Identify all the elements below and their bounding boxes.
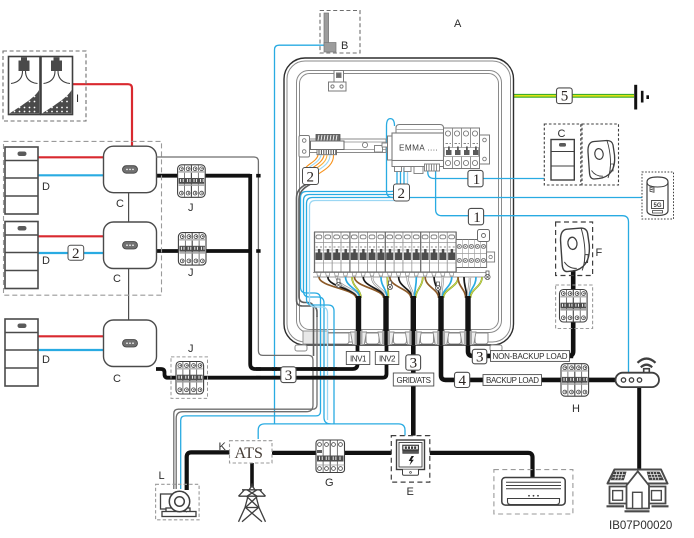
cable gland non-backup (460, 296, 476, 345)
label 4 backup (455, 372, 470, 389)
wire fan GRID/ATS wires (390, 277, 423, 298)
wire signal cyan ATS-E run (258, 424, 405, 440)
svg-text:INV1: INV1 (350, 354, 367, 363)
cable gland backup (433, 296, 449, 345)
svg-text:NON-BACKUP LOAD: NON-BACKUP LOAD (493, 352, 568, 361)
cable stubs and glands (351, 296, 477, 345)
charger C front device (551, 140, 574, 181)
label 3 non-backup (472, 349, 487, 365)
svg-text:D: D (42, 255, 50, 267)
svg-text:1: 1 (473, 210, 481, 226)
LABELS (256, 170, 484, 386)
breaker F (560, 290, 588, 323)
wire battery2 blue (38, 252, 104, 254)
battery D2 (5, 222, 38, 289)
label INV1 (346, 352, 370, 365)
label 1 charger com (468, 170, 483, 188)
top mount component (329, 71, 347, 92)
dongle device (588, 141, 615, 180)
wire fan non-backup load wires (458, 277, 482, 298)
wire signal cyan emma to run (304, 168, 401, 424)
wire battery3 red (38, 335, 104, 337)
wire signal emma com grey to generator (174, 316, 317, 489)
wire grid cable to E meter (411, 300, 416, 440)
svg-text:IB07P00020: IB07P00020 (609, 520, 672, 532)
terminal block on rail (311, 135, 345, 155)
svg-text:2: 2 (307, 170, 315, 186)
svg-text:2: 2 (72, 246, 80, 262)
label 2 terminal com (303, 168, 319, 186)
svg-text:D: D (42, 181, 50, 193)
label 3 inverter bus (281, 367, 296, 384)
wire fan backup load wires (425, 277, 458, 298)
LEFT-COLUMN (3, 51, 208, 398)
CPE 5G cylinder (647, 177, 668, 216)
BOTTOM-ROW (156, 436, 573, 522)
wire AC inverter1 to J1 to bus (156, 174, 250, 178)
svg-text:H: H (572, 403, 580, 415)
svg-text:B: B (341, 40, 348, 52)
wire ATS to G to E (272, 451, 397, 455)
F charger device (561, 228, 590, 272)
router body (616, 373, 660, 387)
wire generator to ATS (187, 452, 230, 490)
house (607, 470, 669, 512)
svg-text:3: 3 (476, 349, 484, 365)
svg-text:INV2: INV2 (379, 354, 396, 363)
label 5 (557, 88, 573, 105)
wire antenna signal (275, 45, 326, 424)
svg-text:L: L (159, 470, 165, 482)
WIRES-LAYER (38, 84, 639, 490)
wire signal emma to label1a to chargerC (428, 168, 545, 179)
label GRID/ATS (393, 373, 434, 386)
antenna B mast (324, 13, 329, 46)
generator L icon (161, 491, 197, 516)
inverter C1 (104, 146, 157, 193)
breaker J3 (176, 362, 204, 395)
grey com wires inside from terminal 2 label (297, 185, 318, 357)
svg-text:A: A (454, 18, 462, 30)
wire router to house (637, 387, 641, 469)
DIN rail (299, 136, 388, 158)
svg-text:F: F (596, 247, 603, 259)
svg-text:J: J (188, 267, 194, 279)
wire crossing patches (thick bus over thin signal wires) (256, 174, 337, 380)
RIGHT-SIDE (320, 11, 674, 533)
svg-text:C: C (116, 198, 124, 210)
tower icon (239, 484, 266, 522)
wire signal inverter1 com grey (156, 157, 313, 489)
label NON-BACKUP LOAD (491, 351, 570, 362)
wire battery3 blue (38, 349, 104, 351)
dashed box CPE 5G (642, 172, 674, 219)
ground symbol (636, 85, 648, 110)
cabinet bottom bumps (295, 331, 502, 351)
dashed box inverter group 1-2 (4, 141, 162, 295)
svg-text:EMMA ....: EMMA .... (399, 144, 438, 153)
wire inverter chain com 1-2 (128, 193, 130, 222)
svg-text:I: I (76, 93, 79, 105)
svg-text:BACKUP LOAD: BACKUP LOAD (486, 376, 539, 385)
PV panel 2 (41, 57, 73, 115)
inverter C2 (104, 222, 157, 269)
breaker row main (313, 230, 495, 278)
breaker J1 (178, 165, 206, 198)
svg-text:C: C (113, 373, 121, 385)
cable gland GRID/ATS (405, 296, 421, 345)
EMMA device (388, 125, 444, 174)
router wifi arcs (638, 359, 656, 368)
svg-text:C: C (113, 273, 121, 285)
AC unit icon (502, 478, 565, 506)
cable gland INV2 (378, 296, 394, 345)
battery D3 (5, 319, 38, 386)
wire fans (319, 271, 490, 298)
router antenna nub (644, 369, 650, 375)
antenna B base (324, 43, 336, 53)
svg-text:1: 1 (473, 172, 481, 188)
breaker H (561, 364, 589, 397)
svg-text:K: K (219, 441, 227, 453)
label BACKUP LOAD (483, 375, 542, 386)
battery D1 (5, 147, 38, 214)
svg-text:D: D (42, 354, 50, 366)
wire AC inverter2 to J2 to bus (156, 249, 250, 253)
dashed box generator L (156, 484, 200, 520)
wire signal emma loop to CPE (387, 119, 643, 198)
dashed box charger C front (544, 124, 581, 185)
svg-text:4: 4 (459, 373, 467, 389)
breaker G (316, 440, 345, 473)
router leds (621, 378, 625, 382)
dashed box ATS (230, 441, 273, 463)
wire PV red to inverter1 (73, 84, 133, 146)
wire non-backup cable to 3 (468, 300, 573, 356)
wire ground green (514, 94, 635, 98)
svg-text:3: 3 (410, 356, 418, 372)
orange signal wires from terminal block (306, 155, 334, 177)
label 1 router com (468, 208, 483, 226)
dashed box PV array I (3, 51, 86, 121)
breaker J2 (178, 233, 206, 266)
dashed box E meter (391, 436, 430, 483)
wire battery2 red (38, 235, 104, 237)
wire inverter chain com 2-3 (128, 269, 130, 320)
CABINET-A (156, 45, 642, 489)
cyan com wires inside from EMMA 2 label (307, 168, 405, 424)
wire backup cable to 4 to H to router (441, 300, 616, 380)
svg-text:J: J (188, 202, 194, 214)
dashed box AC unit (494, 470, 573, 514)
wire AC inverter3 to J3 to INV2 (156, 300, 387, 378)
inverter C3 (104, 320, 157, 367)
dashed box dongle (582, 124, 619, 185)
cabinet A inner frame (297, 71, 502, 333)
svg-text:ATS: ATS (235, 445, 263, 462)
svg-text:GRID/ATS: GRID/ATS (397, 376, 432, 385)
EMMA breaker block (444, 128, 490, 169)
wire battery1 red (38, 156, 104, 158)
svg-text:E: E (407, 486, 414, 498)
dashed box F breaker (556, 285, 593, 329)
label 2 battery com (68, 245, 84, 262)
wire fan INV2 output wires (354, 277, 388, 298)
svg-text:J: J (188, 343, 194, 355)
wire battery1 blue (38, 174, 104, 176)
PV panel 1 (9, 57, 41, 115)
antenna B dashed box (320, 11, 360, 54)
svg-text:C: C (558, 128, 566, 140)
svg-text:3: 3 (285, 368, 293, 384)
wire E meter to AC unit (425, 453, 533, 478)
cabinet A outer shell (284, 58, 514, 345)
cable clamp screws (336, 271, 490, 291)
wire signal emma to label1b to router (436, 168, 629, 373)
label 3 grid (406, 355, 421, 372)
dashed box F charger (556, 222, 593, 276)
label 2 emma com (394, 184, 410, 202)
svg-text:5G: 5G (654, 203, 662, 209)
wire fan INV1 output wires (319, 277, 361, 298)
cable gland INV1 (351, 296, 367, 345)
svg-text:5: 5 (561, 89, 569, 105)
wire F charger cable down (569, 266, 573, 356)
light cyan com wire inside (310, 168, 408, 420)
wire ATS to tower (250, 463, 254, 487)
wire ground yellow stripe (514, 95, 635, 97)
svg-text:G: G (325, 477, 334, 489)
wire signal cyan emma to generator (181, 168, 397, 489)
E meter icon (397, 440, 425, 475)
svg-text:2: 2 (398, 186, 406, 202)
wire AC bus vertical (250, 174, 357, 369)
label INV2 (375, 352, 399, 365)
dashed box J3 (171, 357, 208, 399)
